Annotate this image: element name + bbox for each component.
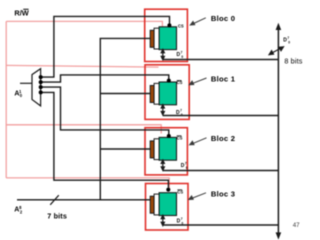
data arrow bloc0 [161,49,164,59]
pink shared edge row 0/1 [6,65,158,67]
svg-text:Bloc 0: Bloc 0 [211,14,235,23]
svg-text:7: 7 [287,36,289,40]
arrow Bloc 0 [190,18,206,25]
svg-text:8 bits: 8 bits [284,56,302,65]
data arrow bloc2 [161,160,164,170]
wire address riser [100,38,151,199]
decoder output node dots [39,75,43,79]
bus width slash 7 bits [50,195,59,205]
memory chip U-bloc1 [150,82,176,105]
svg-text:Bloc 1: Bloc 1 [211,74,236,83]
bloc 2 red frame [145,128,187,175]
pink left vertical edge [5,21,7,178]
wire A1-0 input [20,82,32,84]
svg-text:7: 7 [181,217,183,221]
bloc 3 red frame [146,184,189,231]
wire data bloc0 [163,59,279,61]
arrow Bloc 2 [190,138,207,145]
pink highlight region group (left) [6,21,169,189]
wire net CS3 [41,92,169,187]
svg-text:0: 0 [288,40,290,44]
wire data bloc2 [163,170,279,172]
wire net CS1 [41,75,169,82]
bloc 1 red frame [145,65,189,120]
svg-text:0: 0 [186,166,188,170]
svg-text:0: 0 [181,55,183,59]
data arrow bloc1 [161,105,164,115]
svg-text:7 bits: 7 bits [47,211,67,220]
bus width double arrow 8 bits [269,47,283,55]
node CS bloc1 [167,79,171,83]
svg-text:7: 7 [180,109,182,113]
svg-text:Bloc 3: Bloc 3 [211,189,235,198]
pink shared edge row 1/2 [6,125,161,134]
wire data bloc1 [163,115,279,117]
svg-text:Bloc 2: Bloc 2 [211,134,235,143]
memory chip U-bloc0 [150,27,176,50]
arrow Bloc 1 [189,78,206,85]
wire net CS2 [41,87,169,136]
node CS bloc3 [166,188,170,192]
wire address tap chip1 [100,93,151,95]
svg-text:CS: CS [178,23,184,28]
node CS bloc0 [167,23,171,27]
wire net CS0 (R/W row to bloc0) [41,16,170,77]
node CS bloc2 [167,134,171,138]
arrow Bloc 3 [189,193,206,200]
pink top edge row 0 [6,21,162,27]
data bus vertical right [277,28,279,236]
bloc 0 red frame [145,9,188,61]
memory chip U-bloc2 [150,137,176,160]
pink bottom edge row 2 [6,178,169,189]
svg-text:47: 47 [293,222,300,229]
svg-text:7: 7 [185,162,187,166]
wire data bloc3 [163,224,279,226]
memory chip U-bloc3 [150,193,176,216]
svg-text:7: 7 [181,50,183,54]
wire address tap chip2 [100,148,151,150]
data arrow bloc3 [161,215,164,225]
wire address bus A8-2 [17,199,151,201]
decoder U1 (2-to-4) trapezoid [32,69,41,106]
